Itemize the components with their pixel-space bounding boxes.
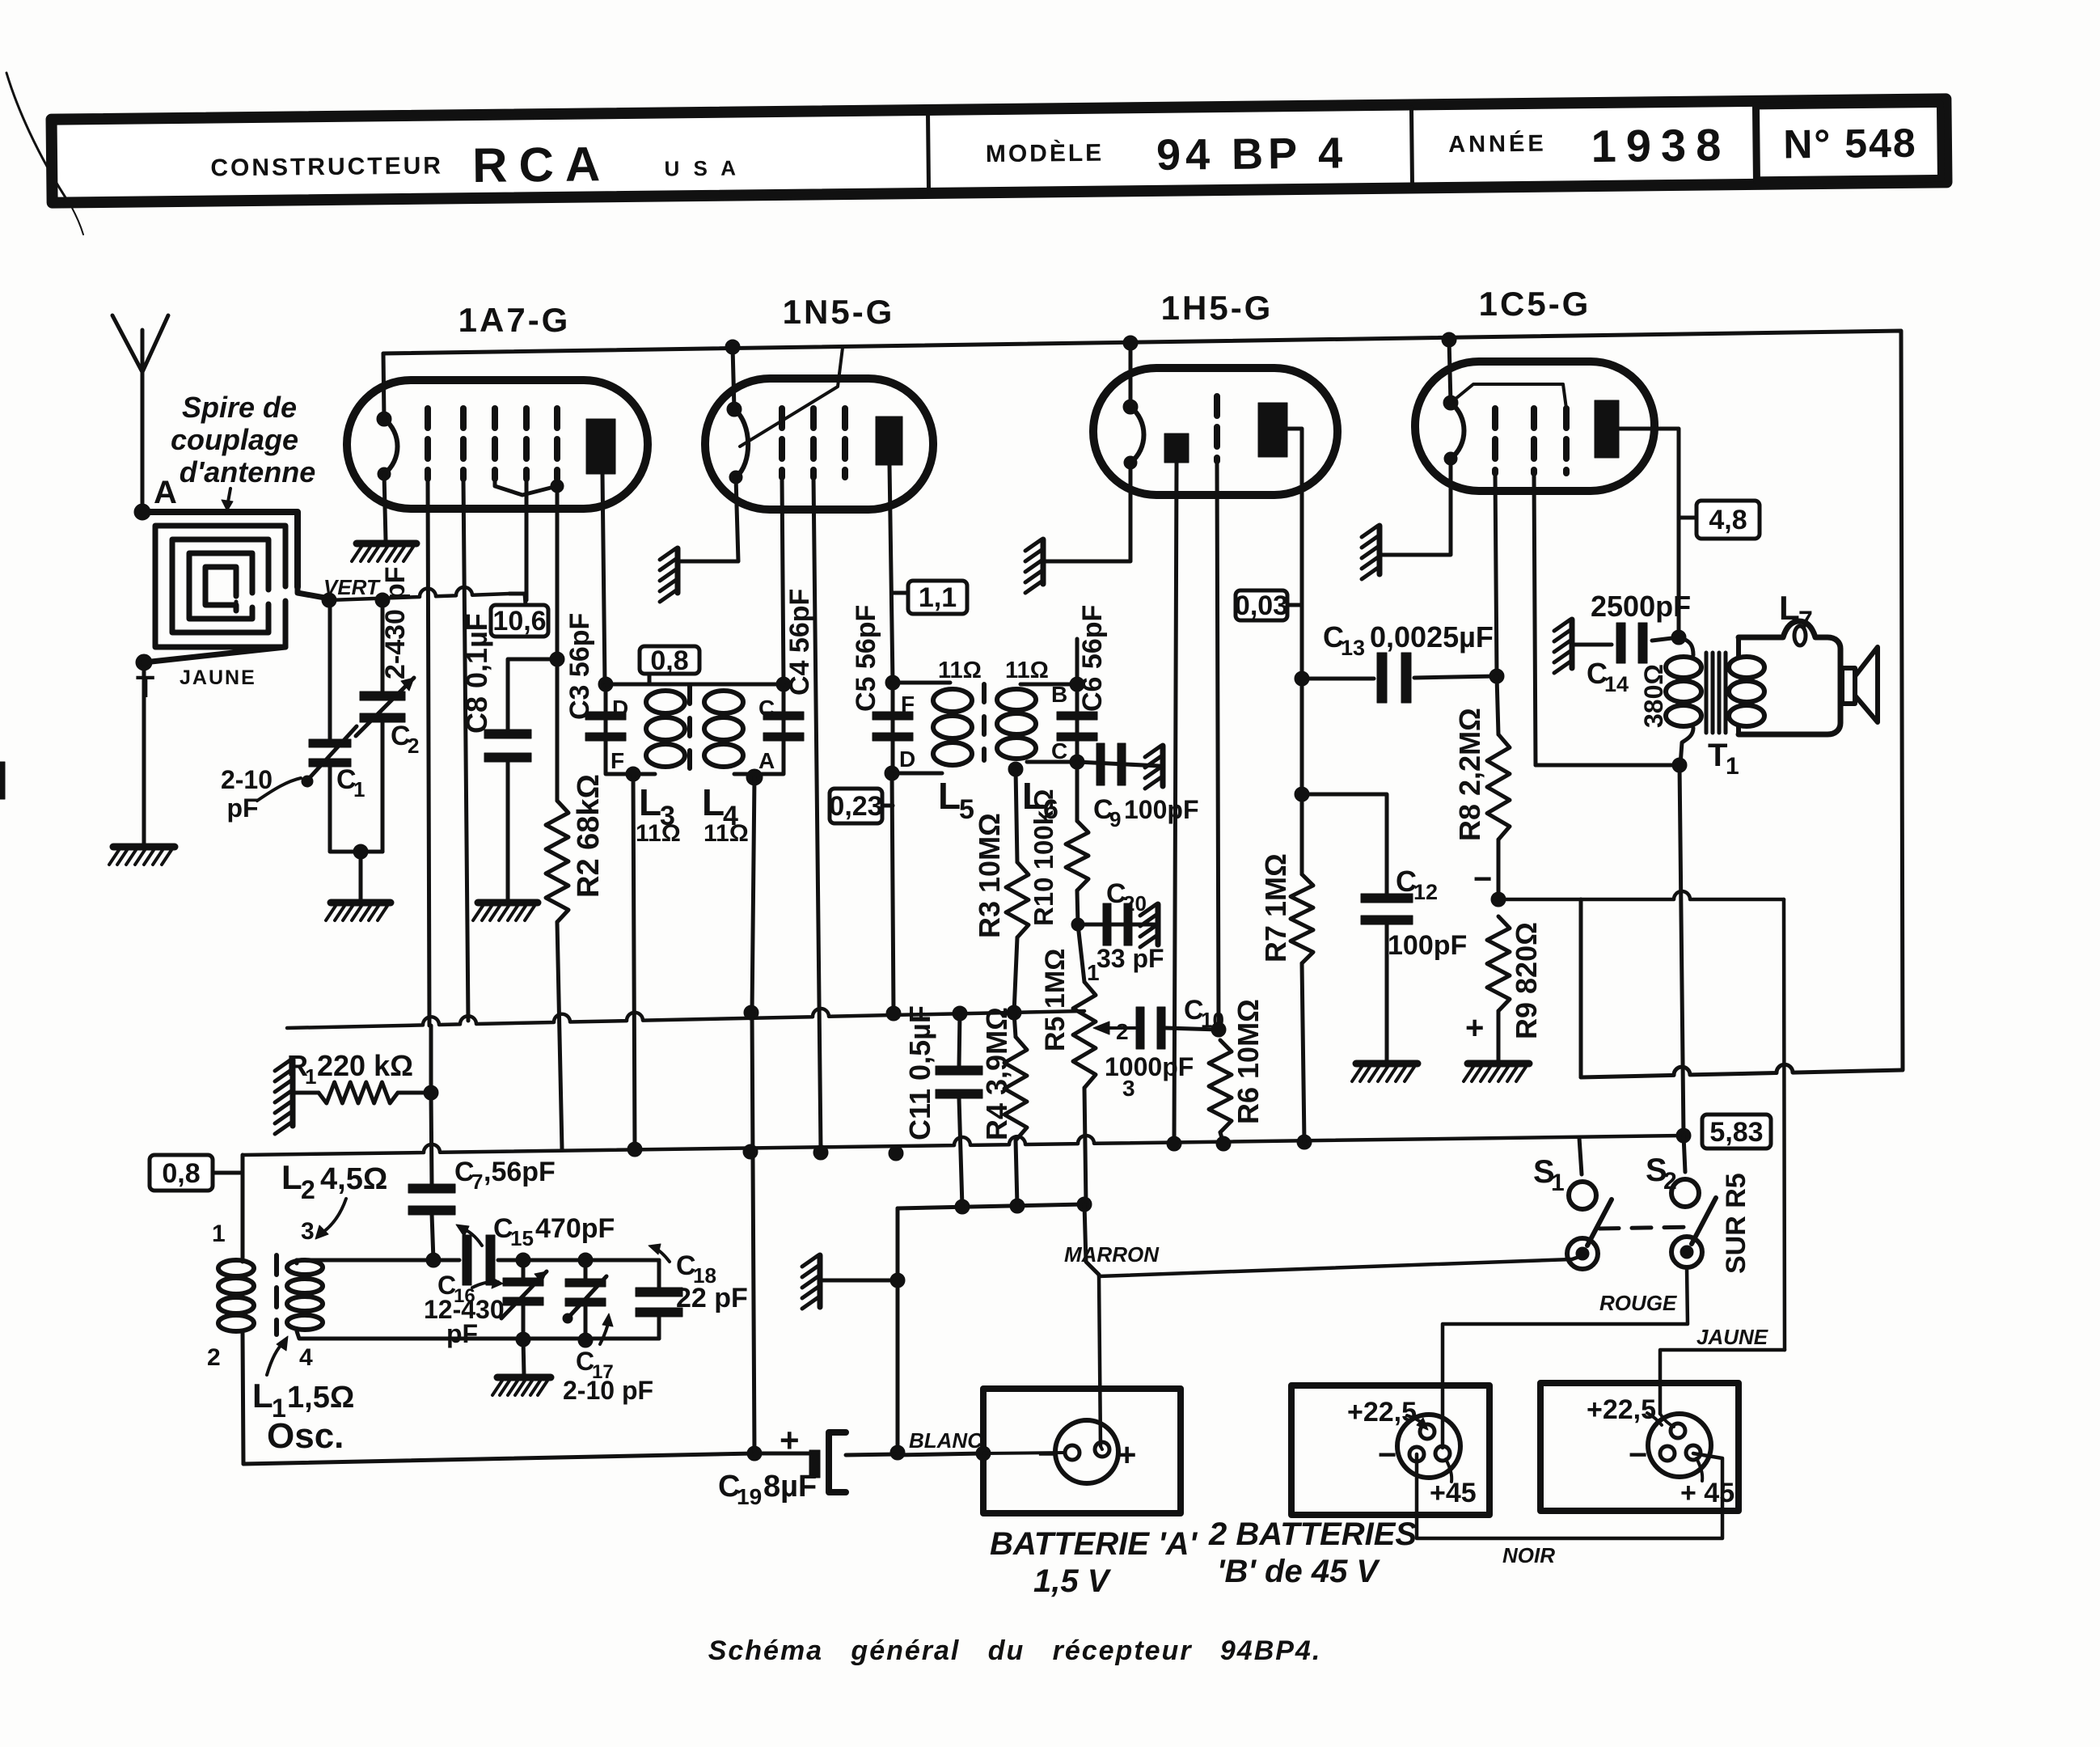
- battery B1 box: [1291, 1385, 1489, 1515]
- IF transformer L4: [756, 684, 784, 774]
- wire 1H5 grid down to R6: [1217, 461, 1219, 1030]
- wire L4 A down: [752, 777, 754, 1013]
- switch link (dashed): [1599, 1227, 1692, 1229]
- svg-text:+: +: [1118, 1437, 1136, 1473]
- svg-text:R9 820Ω: R9 820Ω: [1510, 922, 1543, 1039]
- svg-text:U S A: U S A: [664, 155, 740, 180]
- svg-text:2-10: 2-10: [221, 765, 273, 794]
- wire 1N5 g2 down: [813, 477, 821, 1150]
- svg-text:2-430: 2-430: [380, 609, 411, 679]
- resistor R8 2,2MOhm: [1487, 734, 1510, 840]
- svg-text:13: 13: [1341, 636, 1365, 660]
- capacitor C6 56pF: [1057, 712, 1097, 720]
- wire bus to 1C5 filament: [1449, 340, 1451, 403]
- wire T1 bottom down to S2 column: [1680, 765, 1684, 1136]
- svg-text:R10 100kΩ: R10 100kΩ: [1029, 789, 1058, 926]
- svg-text:470pF: 470pF: [535, 1213, 615, 1244]
- L1 winding: [241, 1155, 245, 1262]
- L2 winding: [295, 1260, 299, 1263]
- svg-text:3: 3: [301, 1218, 315, 1245]
- capacitor C4 56pF: [763, 712, 804, 720]
- svg-text:C11 0,5µF: C11 0,5µF: [903, 1005, 936, 1140]
- node C1/C2 junction to ground: [353, 844, 368, 859]
- svg-text:NOIR: NOIR: [1502, 1543, 1555, 1567]
- voltage box 5,83: [1702, 1115, 1771, 1148]
- wire L5 D down to AVC bus: [892, 773, 894, 1013]
- svg-text:ROUGE: ROUGE: [1599, 1291, 1677, 1315]
- svg-text:MODÈLE: MODÈLE: [986, 139, 1105, 168]
- ground (1H5 cathode): [1041, 539, 1046, 584]
- svg-text:2: 2: [1116, 1019, 1129, 1044]
- svg-text:4: 4: [299, 1344, 313, 1371]
- tube 1H5-G filament: [1123, 400, 1138, 414]
- tube 1H5-G envelope: [1093, 368, 1337, 495]
- svg-text:0,0025µF: 0,0025µF: [1370, 620, 1494, 654]
- capacitor C3 56pF: [585, 712, 626, 720]
- node bus taps: [725, 340, 740, 354]
- node T: [136, 654, 152, 670]
- ground (C8): [478, 899, 538, 907]
- svg-text:11Ω: 11Ω: [938, 658, 982, 683]
- svg-text:R2 68kΩ: R2 68kΩ: [572, 774, 606, 898]
- IF transformer L3: [606, 684, 633, 774]
- svg-text:12: 12: [1413, 880, 1438, 904]
- svg-text:F: F: [611, 748, 624, 773]
- voltage box 0,8 (osc): [150, 1155, 213, 1191]
- node L5 top F: [885, 675, 900, 690]
- svg-text:220 kΩ: 220 kΩ: [317, 1049, 413, 1082]
- svg-text:L: L: [639, 781, 661, 823]
- svg-text:11Ω: 11Ω: [1005, 658, 1049, 683]
- node L5 D: [885, 766, 899, 780]
- svg-text:1C5-G: 1C5-G: [1479, 285, 1591, 323]
- tube 1C5-G grids: [1492, 408, 1498, 473]
- capacitor C5 56pF: [873, 712, 913, 720]
- svg-text:2: 2: [301, 1175, 315, 1204]
- tube 1C5-G anode: [1595, 400, 1619, 458]
- svg-text:0,23: 0,23: [829, 791, 882, 822]
- wire 1N5 g1 to C4: [782, 477, 784, 684]
- svg-text:1: 1: [353, 777, 365, 802]
- svg-text:N° 548: N° 548: [1783, 121, 1917, 167]
- svg-text:2: 2: [408, 734, 419, 758]
- node A: [134, 504, 150, 520]
- svg-text:1,1: 1,1: [919, 582, 957, 613]
- tube 1H5-G grid: [1214, 396, 1220, 461]
- voltage box 0,23: [830, 789, 882, 823]
- wire A+ bus (bus2): [243, 1136, 1684, 1155]
- capacitor C7 56pF: [431, 1026, 432, 1185]
- svg-text:R6 10MΩ: R6 10MΩ: [1232, 999, 1265, 1124]
- wire VERT antenna line: [329, 587, 509, 600]
- svg-text:BLANC: BLANC: [909, 1428, 983, 1453]
- right loop to R8 node: [1581, 1064, 1903, 1077]
- svg-text:−: −: [1378, 1437, 1396, 1473]
- wire 933 column (from bus2): [752, 1013, 754, 1453]
- svg-text:11Ω: 11Ω: [636, 820, 681, 847]
- osc bottom rail to C19: [243, 1453, 754, 1464]
- resistor R1 220kOhm: [290, 1060, 296, 1126]
- svg-text:'B' de 45 V: 'B' de 45 V: [1217, 1554, 1380, 1589]
- capacitor C14 2500pF: [1570, 620, 1575, 668]
- svg-text:−: −: [1037, 1434, 1058, 1474]
- svg-text:1: 1: [305, 1064, 316, 1089]
- wire T1 bottom: [1672, 758, 1687, 772]
- svg-text:100pF: 100pF: [1124, 795, 1198, 824]
- resistor R10 100kOhm: [1075, 762, 1080, 821]
- voltage box 10,6: [491, 605, 548, 637]
- svg-text:R7 1MΩ: R7 1MΩ: [1259, 853, 1292, 962]
- osc core L1/L2: [274, 1255, 279, 1335]
- svg-text:BATTERIE 'A': BATTERIE 'A': [990, 1526, 1198, 1562]
- wire 1A7 grid pins down: [428, 479, 429, 1026]
- ground (antenna T): [113, 844, 175, 851]
- svg-text:1,5Ω: 1,5Ω: [287, 1381, 354, 1415]
- svg-text:−: −: [1473, 861, 1492, 897]
- tube 1N5-G filament: [727, 402, 742, 417]
- svg-text:R5 1MΩ: R5 1MΩ: [1040, 949, 1071, 1051]
- node R6 top / C10: [1211, 1022, 1226, 1037]
- coupling core L3/L4: [687, 686, 692, 770]
- speaker: [1842, 668, 1855, 704]
- svg-text:1938: 1938: [1591, 119, 1730, 171]
- svg-text:C5 56pF: C5 56pF: [851, 605, 881, 712]
- svg-text:19: 19: [737, 1484, 762, 1509]
- capacitor C9 100pF: [1077, 762, 1160, 766]
- svg-text:2 BATTERIES: 2 BATTERIES: [1208, 1516, 1417, 1552]
- ground (C1/C2): [331, 899, 391, 907]
- svg-text:7: 7: [471, 1170, 483, 1194]
- svg-text:1H5-G: 1H5-G: [1161, 289, 1274, 327]
- svg-text:R8 2,2MΩ: R8 2,2MΩ: [1453, 708, 1486, 841]
- capacitor C12 100pF: [1302, 794, 1387, 901]
- resistor R6 10MOhm: [1209, 1040, 1232, 1132]
- capacitor C15 470pF: [463, 1235, 471, 1285]
- ground (C12): [1356, 1060, 1418, 1068]
- scan mark left edge: [0, 762, 5, 799]
- svg-text:2-10 pF: 2-10 pF: [563, 1376, 653, 1405]
- ground (C20): [1156, 904, 1161, 945]
- wire 1C5 anode to T1 primary: [1619, 429, 1679, 637]
- wire 1N5 grid cap to bus: [740, 348, 843, 446]
- resistor R3 10MOhm: [1008, 762, 1023, 776]
- svg-text:22 pF: 22 pF: [676, 1283, 748, 1313]
- tube 1N5-G envelope: [705, 379, 933, 510]
- svg-text:L: L: [938, 775, 961, 817]
- resistor R4 3,9MOhm: [1014, 1013, 1016, 1037]
- node R1/grid: [424, 1085, 438, 1100]
- resistor R9 820ohm: [1487, 916, 1510, 1011]
- svg-text:Osc.: Osc.: [267, 1416, 344, 1456]
- svg-text:ANNÉE: ANNÉE: [1448, 129, 1547, 158]
- wire 1A7 anode to L3: [602, 474, 605, 684]
- node R8/R9: [1491, 892, 1506, 907]
- antenna: [141, 368, 145, 512]
- svg-text:+22,5: +22,5: [1587, 1394, 1656, 1425]
- svg-text:A: A: [154, 475, 177, 510]
- svg-text:15: 15: [510, 1226, 534, 1250]
- svg-text:4,8: 4,8: [1709, 505, 1747, 535]
- svg-text:2500pF: 2500pF: [1591, 590, 1691, 623]
- svg-text:+: +: [1465, 1010, 1484, 1046]
- svg-text:1000pF: 1000pF: [1105, 1052, 1194, 1081]
- svg-text:2: 2: [207, 1344, 221, 1371]
- wire ROUGE: [1443, 1267, 1688, 1448]
- svg-text:CONSTRUCTEUR: CONSTRUCTEUR: [210, 152, 443, 181]
- svg-text:1: 1: [1551, 1170, 1565, 1196]
- battery A box: [983, 1389, 1181, 1513]
- svg-text:MARRON: MARRON: [1064, 1242, 1160, 1267]
- wire 1A7 g2+g4 join: [495, 479, 557, 495]
- svg-text:1: 1: [212, 1220, 226, 1247]
- svg-text:JAUNE: JAUNE: [1696, 1325, 1768, 1349]
- svg-text:1: 1: [1087, 960, 1100, 985]
- ground (chassis near C19): [818, 1255, 823, 1307]
- svg-text:10,6: 10,6: [492, 606, 546, 637]
- tube 1A7-G envelope: [347, 380, 648, 509]
- node L3 F: [626, 767, 640, 781]
- coupling core L5/L6: [982, 684, 987, 760]
- svg-text:0,8: 0,8: [162, 1158, 200, 1189]
- tube 1N5-G anode: [876, 417, 902, 465]
- node C2 tap: [375, 593, 390, 607]
- svg-text:SUR R5: SUR R5: [1721, 1173, 1751, 1274]
- svg-text:+22,5: +22,5: [1347, 1397, 1417, 1428]
- wire JAUNE: [1660, 1350, 1785, 1414]
- wire 1A7 filament to ground: [384, 474, 386, 540]
- svg-text:pF: pF: [226, 793, 258, 823]
- svg-text:A: A: [758, 748, 775, 773]
- svg-text:11Ω: 11Ω: [704, 820, 749, 847]
- potentiometer R5 1MOhm: [1078, 924, 1084, 982]
- node T1 primary top: [1671, 630, 1686, 645]
- loop antenna (spire de couplage): [142, 512, 298, 587]
- wire 1N5 anode to L5: [889, 465, 893, 683]
- top supply bus: [383, 331, 1903, 1069]
- svg-text:100pF: 100pF: [1388, 930, 1467, 961]
- capacitor C17 2-10pF: [584, 1260, 588, 1283]
- svg-text:1: 1: [1726, 753, 1739, 780]
- capacitor C13 0,0025uF: [1302, 677, 1374, 681]
- svg-text:1A7-G: 1A7-G: [458, 301, 571, 339]
- wire L3 F down to bus2: [633, 774, 635, 1149]
- svg-text:R3 10MΩ: R3 10MΩ: [973, 813, 1006, 938]
- ground (1N5 cathode): [675, 548, 681, 593]
- wire AVC bus (bus1): [287, 1009, 1084, 1028]
- tube 1C5-G grid cap wiring: [1451, 384, 1566, 408]
- svg-text:,56pF: ,56pF: [484, 1157, 556, 1187]
- tube 1C5-G envelope: [1415, 362, 1654, 491]
- svg-text:9: 9: [1109, 807, 1121, 831]
- svg-text:1,5 V: 1,5 V: [1033, 1563, 1112, 1599]
- ground (osc): [523, 1339, 524, 1375]
- wire chassis down to BLANC line: [896, 1280, 900, 1453]
- capacitor C10 1000pF: [1136, 1007, 1144, 1049]
- tube 1C5-G filament: [1443, 396, 1458, 410]
- svg-text:1N5-G: 1N5-G: [783, 293, 895, 331]
- wire bus to 1N5 filament: [733, 347, 734, 409]
- svg-text:d'antenne: d'antenne: [180, 455, 316, 489]
- wire bus to 1A7 filament: [383, 353, 384, 419]
- svg-text:pF: pF: [446, 1319, 478, 1348]
- svg-text:C8 0,1µF: C8 0,1µF: [460, 613, 493, 734]
- svg-text:5,83: 5,83: [1709, 1117, 1763, 1148]
- wire 1C5 filament to ground: [1381, 459, 1451, 555]
- voltage box 0,8 (L3): [640, 646, 699, 674]
- ground (C9): [1160, 746, 1166, 786]
- svg-text:94 BP 4: 94 BP 4: [1156, 129, 1348, 180]
- tube 1H5-G anode: [1258, 403, 1287, 457]
- node L4 A: [746, 769, 763, 785]
- svg-text:L: L: [252, 1377, 273, 1415]
- capacitor C1 (2-10pF trimmer): [328, 600, 332, 742]
- svg-text:C6 56pF: C6 56pF: [1077, 605, 1108, 712]
- svg-text:couplage: couplage: [171, 423, 298, 456]
- scan crease top-left: [6, 73, 71, 206]
- node bus2/S2/5,83: [1676, 1128, 1691, 1143]
- svg-text:L: L: [281, 1158, 302, 1196]
- svg-text:C3 56pF: C3 56pF: [564, 613, 595, 720]
- ground (1A7 cathode): [357, 540, 416, 548]
- voltage box 0,03: [1236, 590, 1287, 620]
- svg-text:L: L: [702, 781, 725, 823]
- svg-text:8µF: 8µF: [763, 1470, 817, 1504]
- capacitor C11 0,5uF: [959, 1013, 960, 1066]
- svg-text:RCA: RCA: [472, 137, 612, 192]
- wire 1C5 g2 to T1: [1534, 473, 1536, 765]
- node L6 C: [1070, 755, 1084, 769]
- svg-text:pF: pF: [380, 566, 411, 600]
- wire 1C5 g1 to C13 node: [1495, 473, 1497, 676]
- wire 1H5 diode plate down: [1174, 463, 1177, 1144]
- wire 1A7 g3 to VERT line: [525, 479, 529, 600]
- wire bus3 to C19 line: [896, 1208, 900, 1280]
- svg-text:D: D: [899, 747, 915, 772]
- svg-text:−: −: [1629, 1437, 1647, 1473]
- wire T to ground: [142, 662, 146, 847]
- wire chassis bus (bus3): [898, 1204, 1084, 1208]
- voltage box 4,8: [1696, 501, 1760, 539]
- resistor R7 1MOhm: [1295, 671, 1309, 686]
- svg-text:Schéma général du récept: Schéma général du récepteur 94BP4.: [708, 1635, 1322, 1666]
- tube 1N5-G grids: [779, 408, 785, 477]
- svg-text:R4 3,9MΩ: R4 3,9MΩ: [980, 1007, 1013, 1140]
- node C18 column joins bottom rail: [747, 1446, 762, 1461]
- wire 1H5 anode to R7 column: [1287, 429, 1302, 874]
- svg-text:C4 56pF: C4 56pF: [784, 589, 815, 696]
- svg-text:Spire de: Spire de: [182, 391, 297, 424]
- node C13/R8: [1489, 669, 1504, 683]
- capacitor C20 33pF: [1071, 918, 1084, 931]
- wire L3/L4 top rail: [606, 683, 784, 687]
- osc top rail: [297, 1258, 459, 1263]
- svg-text:B: B: [1051, 682, 1067, 707]
- wire MARRON: [1572, 1255, 1583, 1259]
- capacitor C2 (2-430pF variable): [381, 600, 385, 693]
- capacitor C18 22pF: [657, 1260, 661, 1292]
- capacitor C16 12-430pF: [522, 1260, 526, 1281]
- wire NOIR: [1417, 1453, 1722, 1538]
- ground (R9): [1468, 1060, 1529, 1068]
- wire bus to 1H5 filament: [1129, 343, 1133, 407]
- tube 1A7-G anode: [586, 419, 615, 474]
- wire 1N5 filament to ground: [679, 477, 738, 561]
- capacitor C8 0,1uF: [508, 659, 557, 730]
- wire R8 node to right loop: [1498, 891, 1784, 899]
- voltage box 1,1: [908, 581, 967, 614]
- node C16 bottom: [516, 1332, 530, 1347]
- ground (1C5 cathode): [1377, 526, 1383, 574]
- svg-text:T: T: [1708, 738, 1727, 773]
- svg-text:0,8: 0,8: [650, 645, 688, 676]
- IF transformer L6: [1075, 684, 1080, 762]
- tube 1H5-G diode plate: [1164, 434, 1189, 463]
- wire BLANC: [898, 1453, 983, 1455]
- svg-text:C: C: [1051, 738, 1067, 764]
- svg-text:33 pF: 33 pF: [1096, 944, 1164, 973]
- wire 1H5 filament to ground: [1045, 463, 1130, 561]
- svg-text:4,5Ω: 4,5Ω: [320, 1162, 387, 1196]
- node L3 top: [598, 677, 613, 692]
- tube 1A7-G grids (dashed): [425, 408, 431, 479]
- R5 wiper arrow: [1109, 1026, 1135, 1030]
- resistor R2 68kOhm: [546, 801, 568, 922]
- IF transformer L5: [891, 683, 895, 773]
- title block header: [52, 99, 1947, 202]
- svg-text:0,03: 0,03: [1235, 590, 1288, 621]
- wire bus3/S1 link (bus4): [1084, 1204, 1099, 1275]
- svg-text:JAUNE: JAUNE: [180, 666, 256, 689]
- tube 1A7-G filament: [377, 412, 391, 426]
- svg-text:14: 14: [1604, 672, 1629, 696]
- svg-text:+ 45: + 45: [1680, 1478, 1735, 1508]
- battery B2 box: [1540, 1383, 1739, 1511]
